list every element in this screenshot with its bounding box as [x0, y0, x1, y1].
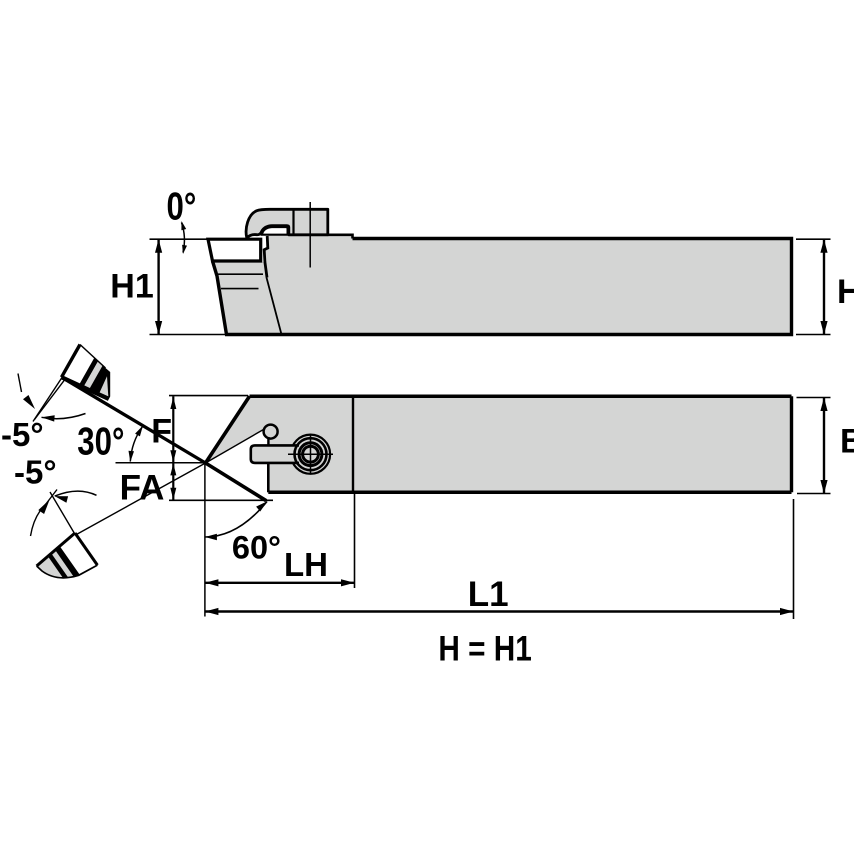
angle 30deg: thick cutting edge line to upper insert — [62, 377, 206, 463]
top view: pocket back wall vertical — [267, 463, 270, 492]
top view: clamp arm (rounded) — [251, 445, 299, 463]
side view: holder body (gray silhouette) — [213, 235, 792, 335]
top view: clamp hook tail — [267, 437, 269, 445]
dimension F/FA: bottom extension line — [169, 499, 273, 501]
angle 60deg: vertical extension below tip — [204, 463, 206, 617]
svg-text:30°: 30° — [77, 420, 124, 463]
angle 30deg: horizontal reference line — [116, 462, 206, 464]
upper insert: body with hatch stripes — [62, 345, 135, 414]
upper insert: arc with arrow (below) — [42, 414, 86, 419]
svg-text:LH: LH — [284, 546, 328, 583]
lower insert: -5deg extension line A — [50, 492, 75, 534]
lower insert: -5deg reference line B — [44, 490, 57, 507]
dimension H: dimension line with arrows — [823, 239, 825, 334]
svg-text:H: H — [837, 273, 854, 311]
svg-text:B: B — [840, 423, 854, 461]
top view: screw crosshair horizontal — [288, 453, 333, 455]
lower insert: body with hatch stripes — [15, 533, 98, 610]
dimension B: dimension line with arrows — [823, 398, 825, 494]
dimension L1: dimension line with arrows — [205, 610, 794, 612]
top view: clamp hook circle — [264, 425, 278, 439]
top view: screw outer circle — [295, 438, 327, 470]
svg-text:0°: 0° — [167, 185, 197, 228]
side view: nose front thick profile — [264, 236, 268, 278]
top view: lower V cutting edge — [206, 463, 267, 501]
dimension F/FA: top extension line — [169, 395, 248, 397]
svg-text:FA: FA — [120, 469, 165, 508]
dimension H1: bottom extension tick — [150, 334, 227, 336]
svg-text:H = H1: H = H1 — [438, 629, 531, 668]
dimension LH: dimension line with arrows — [205, 582, 355, 584]
side view: insert pocket (white trapezoid) — [208, 239, 261, 261]
svg-text:L1: L1 — [468, 575, 509, 614]
top view: screw crosshair vertical — [310, 435, 312, 474]
top view: top edge thick — [250, 395, 792, 399]
dimension H1: dimension line with arrows — [157, 239, 159, 334]
side view: body outline bottom/right/left thick edges — [213, 239, 792, 335]
dimension H: top extension tick — [796, 238, 831, 240]
lower insert: thick left edge — [37, 533, 75, 566]
top view: upper V cutting edge — [206, 396, 250, 463]
top view: thin line tip to lower insert — [71, 463, 206, 538]
top view: pocket interior (white) — [206, 429, 269, 501]
svg-text:H1: H1 — [110, 268, 153, 306]
dimension B: bottom extension tick — [797, 493, 831, 495]
upper insert: -5deg extension line A — [33, 378, 62, 422]
dimension B: top extension tick — [797, 397, 831, 399]
upper insert: -5deg reference line B — [35, 378, 67, 420]
top view: right edge thick — [790, 396, 793, 492]
dimension F: line with arrows — [172, 396, 174, 463]
top view: clamp screw boss circle — [291, 435, 330, 474]
svg-text:-5°: -5° — [1, 416, 44, 453]
side view: seat line 1 — [217, 273, 263, 275]
top view: screw middle circle — [299, 443, 322, 466]
side view: seat line 2 — [221, 288, 259, 290]
lower insert: arc with arrow (right) — [55, 491, 97, 496]
side view: clamp division line — [292, 211, 294, 235]
lower insert: thick right edge — [75, 533, 97, 565]
top view: screw inner circle — [303, 446, 319, 462]
side view: top ledge right of clamp with step — [328, 235, 353, 239]
side view: pocket back slant line — [267, 278, 282, 335]
lower insert: leader arrow (bottom-left) — [31, 511, 41, 536]
upper insert: thin top-right edge — [80, 345, 106, 369]
angle 0deg: double arrow arc — [182, 223, 185, 253]
upper insert: thick left edge — [62, 345, 81, 378]
upper insert: leader line with arrow (top-left) — [18, 374, 22, 393]
top view: bottom edge thick — [268, 491, 791, 495]
side view: clamp (gray with outline) — [246, 209, 328, 238]
dimension L1: right extension line — [793, 499, 795, 619]
svg-text:-5°: -5° — [14, 454, 57, 491]
side view: clamp screw centerline — [309, 202, 311, 268]
top view: head/shank division line — [352, 396, 354, 492]
upper insert: thick bottom edge — [62, 377, 109, 399]
dimension H: bottom extension tick — [796, 334, 831, 336]
dimension LH: right extension line — [354, 494, 356, 588]
angle 30deg: arc with arrows — [130, 427, 142, 462]
top view: shank body (gray silhouette) — [206, 396, 792, 500]
svg-text:60°: 60° — [232, 530, 281, 566]
svg-text:F: F — [151, 413, 172, 451]
top view: thin line tip to hook — [206, 429, 266, 463]
angle 60deg: arc — [205, 502, 267, 538]
dimension H1: top extension tick — [150, 238, 209, 240]
lower insert: bottom thin edge — [37, 565, 98, 578]
dimension FA: line with arrows — [172, 463, 174, 501]
side view: clamp hook notch (white) — [262, 227, 288, 235]
